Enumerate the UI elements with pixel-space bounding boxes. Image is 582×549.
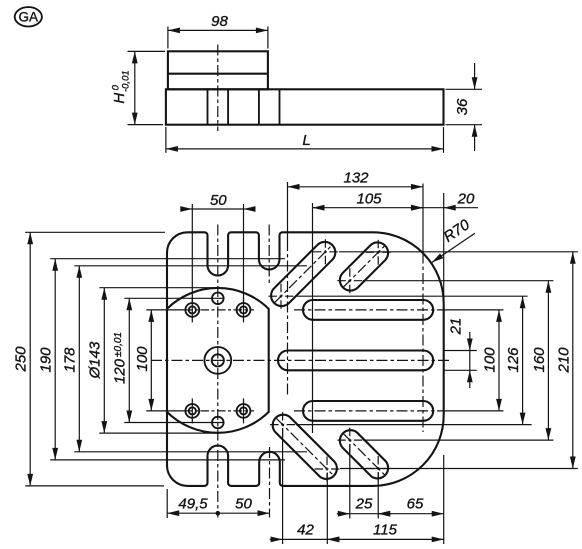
cap cross ticks	[269, 295, 294, 297]
49,5 / 50 chain	[166, 489, 168, 518]
svg-text:25: 25	[355, 496, 373, 513]
small circles	[212, 293, 224, 305]
svg-text:115: 115	[373, 522, 398, 539]
115	[327, 538, 443, 540]
dim 98	[167, 27, 169, 49]
svg-text:20: 20	[457, 190, 475, 207]
svg-text:178: 178	[62, 347, 79, 373]
100	[437, 309, 504, 311]
centerlines	[151, 225, 449, 518]
boss (Ø143 with flats)	[167, 288, 269, 433]
svg-text:190: 190	[38, 347, 55, 373]
GA logo	[15, 7, 42, 26]
svg-text:GA: GA	[19, 9, 39, 24]
100	[146, 309, 184, 311]
svg-text:36: 36	[454, 98, 471, 115]
horizontal slots	[303, 300, 433, 320]
corner holes	[185, 297, 250, 423]
25	[349, 444, 351, 519]
svg-text:100: 100	[134, 346, 151, 372]
20	[443, 193, 445, 299]
base block	[166, 89, 444, 124]
dim 36	[446, 88, 483, 90]
svg-text:21: 21	[448, 318, 465, 336]
diagonal slots	[271, 242, 335, 306]
svg-text:65: 65	[407, 496, 424, 513]
21	[444, 350, 477, 352]
svg-text:Ø143: Ø143	[86, 341, 103, 379]
svg-text:210: 210	[555, 347, 572, 374]
R70 leader	[432, 233, 475, 262]
dim L	[165, 127, 167, 153]
svg-text:98: 98	[211, 13, 228, 30]
svg-text:105: 105	[356, 190, 382, 207]
65	[443, 455, 445, 544]
190	[50, 258, 285, 260]
centerline	[217, 45, 219, 132]
svg-text:42: 42	[297, 522, 314, 539]
178	[74, 265, 307, 267]
Ø143	[99, 287, 219, 289]
svg-text:100: 100	[482, 347, 499, 373]
132	[287, 182, 289, 240]
svg-text:L: L	[302, 132, 310, 149]
50	[191, 204, 193, 302]
svg-text:126: 126	[505, 347, 522, 373]
120 +-0,01	[124, 297, 224, 299]
105	[312, 203, 314, 433]
126	[296, 295, 528, 297]
svg-text:50: 50	[210, 192, 227, 209]
svg-text:49,5: 49,5	[178, 495, 208, 512]
42	[282, 428, 284, 544]
boss block	[168, 51, 268, 89]
svg-text:132: 132	[343, 169, 369, 186]
slot projection lines	[207, 89, 209, 124]
dim H	[128, 50, 166, 52]
svg-text:250: 250	[13, 346, 30, 373]
svg-text:50: 50	[235, 495, 252, 512]
center hole	[204, 347, 231, 374]
210	[339, 251, 578, 253]
250	[25, 231, 165, 233]
diagonal slot axes	[275, 245, 332, 302]
svg-text:160: 160	[531, 347, 548, 373]
160	[363, 280, 553, 282]
